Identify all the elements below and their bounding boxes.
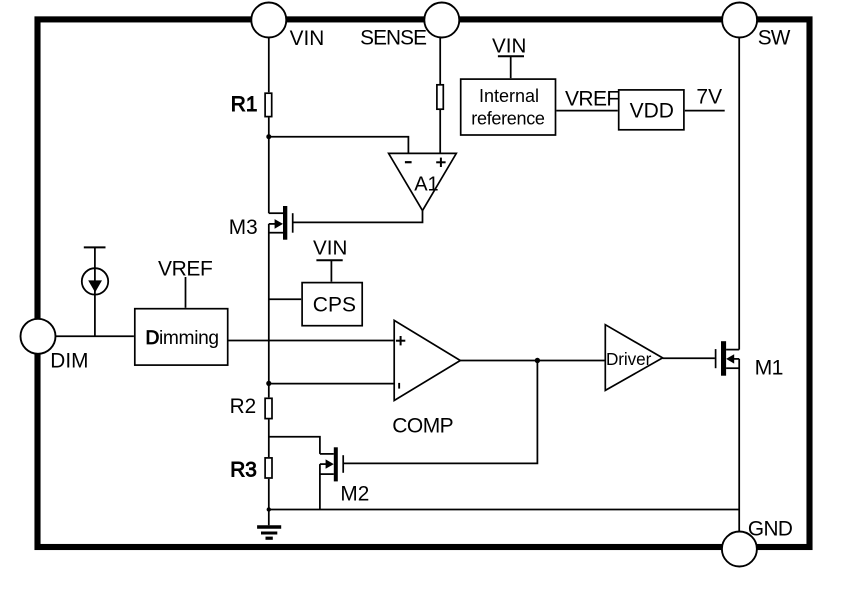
A1 minus sign — [405, 161, 412, 163]
transistor M2 — [320, 447, 343, 481]
svg-text:VREF: VREF — [565, 87, 619, 110]
node D (ground node) — [267, 507, 271, 511]
svg-text:SW: SW — [758, 27, 791, 50]
svg-text:COMP: COMP — [392, 414, 453, 437]
COMP plus sign — [396, 336, 405, 345]
ground — [257, 510, 281, 539]
wire M1 source to ground rail — [738, 359, 740, 510]
svg-text:M2: M2 — [340, 482, 369, 505]
svg-text:Dimming: Dimming — [146, 328, 219, 349]
COMP minus tick — [398, 383, 400, 389]
resistor R2 — [265, 398, 272, 418]
node C (COMP output junction) — [535, 358, 540, 363]
op-amp A1 — [389, 153, 457, 210]
svg-text:reference: reference — [471, 108, 545, 128]
svg-text:A1: A1 — [414, 173, 438, 195]
svg-text:GND: GND — [748, 517, 793, 540]
wire supply bar to CPS box — [330, 260, 332, 281]
label Internal reference — [471, 86, 545, 129]
pin SW — [722, 3, 757, 38]
svg-text:R3: R3 — [230, 459, 257, 482]
svg-text:7V: 7V — [696, 86, 722, 109]
current source I1 — [82, 247, 108, 336]
svg-text:VREF: VREF — [158, 257, 212, 280]
node A (R1 bottom) — [266, 134, 271, 139]
svg-text:DIM: DIM — [50, 349, 88, 372]
wire supply bar to Internal reference box — [510, 56, 512, 78]
wire Driver output to M1 gate — [663, 357, 715, 359]
comparator COMP — [394, 320, 460, 400]
wire M2 source to ground rail — [319, 464, 321, 509]
wire Dimming to COMP plus input — [229, 340, 395, 342]
supply bar above CPS — [316, 259, 342, 261]
resistor R1 — [265, 93, 272, 116]
wire SW pin to M1 drain — [738, 38, 740, 350]
wire node B to COMP minus input — [269, 383, 394, 385]
svg-text:SENSE: SENSE — [360, 27, 426, 50]
wire R2 to R3 — [268, 419, 270, 457]
pin VIN — [251, 3, 286, 38]
svg-text:Internal: Internal — [479, 86, 539, 106]
wire VIN pin to R1 — [268, 38, 270, 93]
wire COMP output to Driver — [460, 360, 605, 362]
wire DIM pin to Dimming box — [56, 335, 134, 337]
svg-text:VIN: VIN — [492, 35, 526, 58]
transistor M3 — [269, 206, 293, 240]
box Internal reference — [461, 79, 556, 135]
wire Internal reference to VDD — [556, 110, 618, 112]
box Dimming — [135, 309, 228, 365]
wire sense resistor to A1 non-inverting input — [439, 110, 441, 153]
wire node A to A1 inverting input — [269, 137, 409, 154]
resistor R3 — [265, 458, 272, 478]
svg-text:R1: R1 — [231, 93, 258, 116]
pin DIM — [21, 319, 56, 354]
svg-text:CPS: CPS — [313, 293, 356, 316]
svg-text:VDD: VDD — [630, 100, 674, 123]
resistor (sense leg) — [437, 85, 443, 109]
svg-text:VIN: VIN — [313, 237, 347, 260]
box CPS — [302, 283, 362, 326]
transistor M1 — [716, 341, 740, 376]
wire main line to CPS — [269, 298, 301, 300]
driver U2 — [605, 325, 662, 391]
node B (COMP minus tap) — [266, 381, 271, 386]
svg-text:M3: M3 — [229, 216, 258, 239]
wire SENSE pin down — [439, 38, 441, 85]
chip boundary — [38, 19, 810, 547]
supply bar above Internal reference — [498, 55, 524, 57]
wire R3 to ground node — [268, 479, 270, 510]
svg-text:VIN: VIN — [290, 27, 325, 50]
wire node C to M2 gate — [343, 361, 537, 464]
wire ground rail — [269, 509, 739, 511]
wire VREF to Dimming box — [185, 277, 187, 308]
wire VDD to 7V output — [685, 110, 725, 112]
A1 plus sign — [436, 158, 445, 167]
wire branch to M2 drain — [269, 437, 320, 454]
wire A1 output to M3 gate — [293, 211, 422, 223]
pin GND — [722, 532, 757, 567]
svg-text:Driver: Driver — [606, 349, 652, 369]
wire ground rail to GND pin — [738, 510, 740, 532]
svg-text:R2: R2 — [230, 395, 257, 418]
pin SENSE — [424, 3, 459, 38]
svg-text:M1: M1 — [755, 357, 783, 380]
wire main vertical R1 to M3 drain — [268, 117, 270, 213]
box VDD — [619, 90, 684, 130]
wire M3 source down to R2 — [268, 224, 270, 398]
